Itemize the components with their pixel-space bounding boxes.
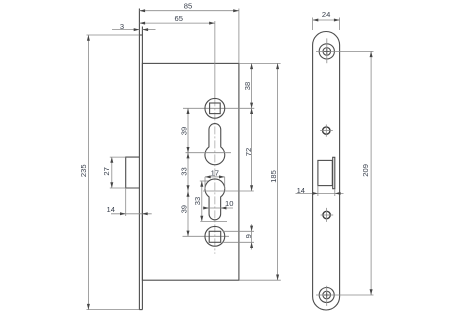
svg-text:14: 14 [297,186,305,195]
top follower circle [205,98,225,118]
lower small hole circle [323,211,330,218]
svg-text:33: 33 [179,167,188,175]
top follower horizontal centerline [183,107,254,109]
dimension 65 line [139,22,214,24]
svg-text:38: 38 [243,82,252,90]
bolt cutout thin rectangle [333,157,335,188]
bottom follower circle [205,226,225,246]
svg-text:72: 72 [244,148,253,156]
dimension 209 line [370,51,372,295]
bottom follower square spindle hole [209,231,221,242]
bolt cutout main rectangle [318,160,332,185]
33 top extension tick [200,180,208,182]
cylinder protrusion box on faceplate [126,157,140,188]
dimension 185 line [277,63,279,280]
upper euro cylinder cutout (inverted, slot up) [205,124,225,165]
bottom screw centerline vertical tick [326,286,328,306]
dimension 24 line [313,19,340,21]
svg-text:39: 39 [179,127,188,135]
svg-text:185: 185 [269,170,278,183]
top screw centerline horizontal to 209 dim [316,50,374,52]
svg-text:10: 10 [225,199,233,208]
235 top extension line [87,34,140,36]
svg-text:33: 33 [193,197,202,205]
bottom screw hole inner circle [323,291,331,299]
svg-text:3: 3 [120,22,124,31]
svg-text:235: 235 [79,164,88,177]
upper small hole cross ticks [320,130,333,132]
svg-text:39: 39 [179,205,188,213]
27 bottom extension [110,187,126,189]
svg-text:17: 17 [211,168,219,177]
27 top extension [110,156,126,158]
235 bottom extension line [87,309,140,311]
9 bottom extension [223,241,255,243]
vertical centerline through cutouts [214,21,216,98]
svg-text:27: 27 [102,167,111,175]
left dim column line (39/33/39) [187,108,189,236]
svg-text:9: 9 [244,234,253,238]
dimension 14 right line [296,192,344,194]
24 left extension [312,18,314,31]
14 right extension lines [317,186,319,196]
faceplate bottom cap [139,309,142,311]
bottom screw hole outer circle [319,288,334,303]
24 right extension [339,18,341,31]
right dim column line (38/72) [251,63,253,191]
svg-text:85: 85 [184,1,192,10]
bottom screw center cross [324,294,330,296]
dimension 3 line [112,29,139,31]
lock case rectangle [142,63,239,280]
case top extension to 185 [239,62,281,64]
faceplate right edge line (side view) [141,27,143,310]
17 right extension [224,177,226,189]
top screw centerline vertical tick [326,38,328,63]
dimension 85 line [139,10,239,12]
case right edge extension up to 85 dim [238,9,240,64]
dimension 14 left line [111,213,152,215]
lower small hole cross ticks [321,214,334,216]
lower euro circle horizontal centerline [203,190,254,192]
9 top extension [223,230,255,232]
bottom follower horizontal centerline [183,235,230,237]
top screw hole inner circle [323,48,331,56]
lower euro cylinder cutout (slot down) [205,179,225,220]
dimension 27 line [111,157,113,188]
top screw center cross [324,50,330,52]
dimension 17 line [205,176,225,178]
front plate stadium outline [313,31,340,310]
svg-text:209: 209 [361,164,370,177]
33 bottom extension tick [200,220,227,222]
upper euro circle horizontal centerline [186,152,232,154]
second dim column 33 line [201,181,203,221]
14 extension from protrusion [125,188,127,216]
case bottom extension to 185 [239,279,281,281]
upper small hole circle [323,127,330,134]
top follower square spindle hole [210,103,221,114]
bottom screw centerline horizontal to 209 dim [316,294,374,296]
dimension 10 line [203,207,233,209]
faceplate left edge line (side view) [138,9,140,310]
dimension 9 line with outside arrows [251,224,253,249]
svg-text:24: 24 [322,10,330,19]
svg-text:14: 14 [106,205,114,214]
top screw hole outer circle [319,44,334,59]
17 left extension [204,177,206,189]
faceplate top cap [139,34,142,36]
dimension 235 line [87,35,89,310]
svg-text:65: 65 [174,14,182,23]
